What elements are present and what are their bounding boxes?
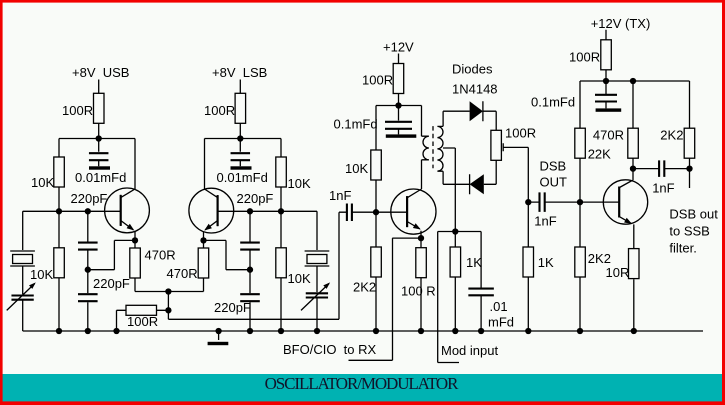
- svg-text:220pF: 220pF: [71, 191, 108, 206]
- svg-text:mFd: mFd: [488, 315, 514, 330]
- svg-text:DSB out: DSB out: [669, 206, 718, 221]
- svg-text:1nF: 1nF: [534, 214, 556, 229]
- svg-text:10R: 10R: [606, 265, 630, 280]
- svg-text:to SSB: to SSB: [669, 224, 709, 239]
- svg-text:220pF: 220pF: [93, 276, 130, 291]
- svg-text:Mod input: Mod input: [441, 343, 498, 358]
- svg-text:10K: 10K: [288, 271, 311, 286]
- svg-text:220pF: 220pF: [214, 300, 251, 315]
- svg-text:10K: 10K: [31, 175, 54, 190]
- svg-text:100R: 100R: [505, 126, 536, 141]
- svg-text:.01: .01: [490, 299, 508, 314]
- svg-text:1K: 1K: [466, 255, 482, 270]
- svg-text:100R: 100R: [362, 73, 393, 88]
- svg-text:filter.: filter.: [669, 240, 696, 255]
- svg-text:2K2: 2K2: [660, 128, 683, 143]
- svg-text:100R: 100R: [569, 50, 600, 65]
- svg-text:100 R: 100 R: [401, 284, 436, 299]
- svg-text:1nF: 1nF: [329, 188, 351, 203]
- svg-text:+8V USB: +8V USB: [72, 65, 129, 80]
- svg-text:+8V LSB: +8V LSB: [212, 65, 267, 80]
- svg-text:100R: 100R: [127, 314, 158, 329]
- svg-text:+12V: +12V: [383, 40, 414, 55]
- svg-text:470R: 470R: [145, 248, 176, 263]
- svg-text:0.1mFd: 0.1mFd: [531, 95, 575, 110]
- svg-text:1N4148: 1N4148: [452, 82, 498, 97]
- svg-text:0.1mFd: 0.1mFd: [334, 117, 378, 132]
- svg-text:100R: 100R: [204, 103, 235, 118]
- svg-text:22K: 22K: [588, 147, 611, 162]
- svg-text:OUT: OUT: [540, 174, 568, 189]
- svg-text:10K: 10K: [345, 161, 368, 176]
- svg-text:+12V (TX): +12V (TX): [591, 16, 651, 31]
- svg-text:10K: 10K: [30, 267, 53, 282]
- svg-text:100R: 100R: [62, 103, 93, 118]
- svg-text:2K2: 2K2: [588, 251, 611, 266]
- svg-text:2K2: 2K2: [353, 280, 376, 295]
- svg-text:470R: 470R: [167, 266, 198, 281]
- svg-text:DSB: DSB: [540, 159, 567, 174]
- svg-text:OSCILLATOR/MODULATOR: OSCILLATOR/MODULATOR: [265, 374, 459, 393]
- svg-text:1K: 1K: [538, 255, 554, 270]
- svg-text:470R: 470R: [593, 128, 624, 143]
- svg-text:1nF: 1nF: [652, 181, 674, 196]
- svg-text:BFO/CIO to RX: BFO/CIO to RX: [283, 342, 377, 357]
- svg-text:Diodes: Diodes: [452, 62, 493, 77]
- svg-text:220pF: 220pF: [237, 191, 274, 206]
- svg-text:0.01mFd: 0.01mFd: [217, 170, 268, 185]
- svg-text:0.01mFd: 0.01mFd: [75, 170, 126, 185]
- svg-text:10K: 10K: [288, 176, 311, 191]
